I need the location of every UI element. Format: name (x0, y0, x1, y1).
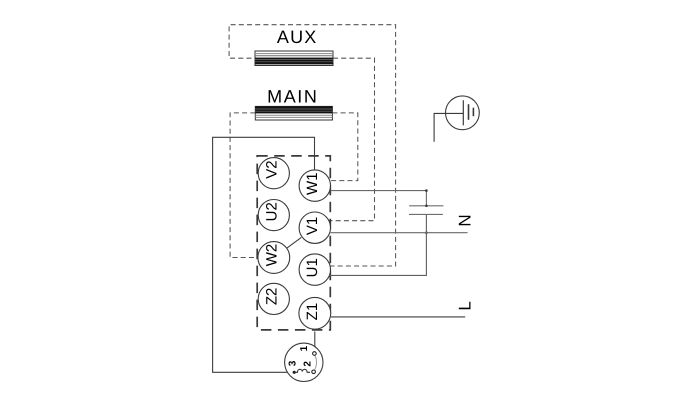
wire AUX winding right to V1 (dashed) (328, 58, 375, 221)
terminal Z2 (258, 283, 289, 314)
wire W1 top loop to thermal terminal 3 (213, 137, 315, 372)
terminal U2 (258, 200, 289, 231)
contact 1 (313, 352, 317, 356)
svg-text:V1: V1 (304, 217, 321, 235)
switch lever contact 2 to 1 (315, 356, 317, 370)
wire Z1 to thermal terminal 1 (314, 332, 316, 352)
wire W2 to V1 (solid diagonal) (287, 237, 302, 248)
svg-text:U1: U1 (304, 258, 321, 277)
svg-text:U2: U2 (263, 202, 280, 221)
wire Z1 to L (solid) (331, 316, 465, 318)
terminal V2 (258, 158, 289, 189)
winding MAIN (255, 106, 332, 120)
svg-text:W1: W1 (304, 172, 321, 195)
capacitor (409, 206, 443, 215)
svg-text:1: 1 (299, 345, 310, 351)
ground symbol (446, 96, 480, 130)
svg-text:N: N (456, 214, 475, 226)
svg-text:Z1: Z1 (304, 303, 321, 321)
svg-text:2: 2 (303, 361, 314, 367)
thermal protector (285, 343, 323, 381)
svg-text:3: 3 (287, 360, 298, 366)
wire MAIN winding left to W2 (dashed) (230, 113, 258, 258)
svg-text:AUX: AUX (277, 27, 318, 47)
svg-text:V2: V2 (263, 160, 280, 178)
terminal V1 (299, 212, 330, 243)
winding AUX (255, 51, 333, 66)
wire U1 to AUX winding left (dashed loop over top) (229, 25, 396, 266)
terminal W2 (258, 242, 290, 274)
svg-text:Z2: Z2 (263, 288, 280, 306)
terminal U1 (299, 254, 330, 285)
wire MAIN winding right to W1 (dashed) (329, 113, 358, 181)
heater coil (296, 369, 310, 372)
junction dot capacitor top plate (425, 205, 428, 208)
terminal Z1 (299, 297, 331, 329)
wire V1 to N (solid) (330, 232, 467, 234)
wire capacitor to U1 (solid) (329, 215, 426, 276)
terminal W1 (299, 170, 330, 201)
svg-text:L: L (456, 301, 475, 310)
terminal block outline (257, 156, 330, 330)
wire ground lead (434, 113, 463, 141)
wire W1 to capacitor (solid) (331, 191, 427, 206)
svg-text:W2: W2 (263, 244, 280, 267)
terminal dot 3 (293, 371, 296, 374)
svg-text:MAIN: MAIN (267, 87, 318, 107)
junction dot at W1-capacitor corner (425, 189, 428, 192)
contact 2 (312, 370, 316, 374)
junction dot capacitor leg crossing N wire (425, 231, 428, 234)
